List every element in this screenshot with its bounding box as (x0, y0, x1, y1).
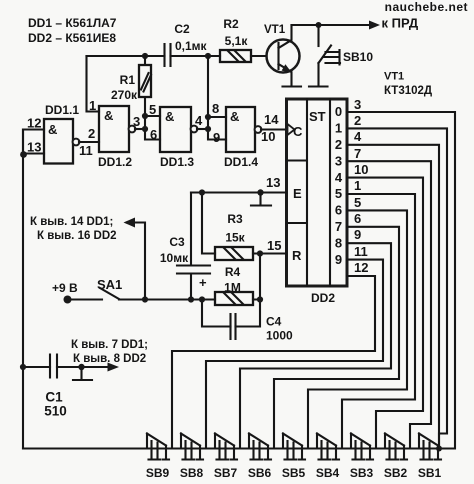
svg-text:SB9: SB9 (146, 466, 170, 480)
node at SB1 right (436, 446, 442, 452)
svg-text:ST: ST (309, 109, 326, 124)
svg-text:SB7: SB7 (214, 466, 238, 480)
svg-text:+: + (199, 275, 207, 290)
svg-text:11: 11 (79, 143, 93, 158)
node vertical at x=208 (C2 node / pins 8,9) (205, 56, 226, 145)
part list text DD1 DD2 (28, 16, 117, 45)
svg-text:8: 8 (335, 235, 342, 250)
resistor R4 (215, 265, 253, 305)
svg-text:2: 2 (354, 113, 361, 128)
svg-text:10: 10 (261, 129, 275, 144)
R input wire pin 15 (253, 238, 287, 257)
svg-text:SB3: SB3 (350, 466, 374, 480)
svg-text:13: 13 (27, 140, 41, 155)
switch SA1 (97, 277, 122, 299)
svg-text:SB4: SB4 (316, 466, 340, 480)
pushbutton SB4 (316, 434, 340, 481)
svg-text:C: C (293, 124, 303, 139)
svg-text:SB5: SB5 (282, 466, 306, 480)
svg-text:3: 3 (133, 114, 140, 129)
svg-text:12: 12 (27, 116, 41, 131)
pushbutton SB10 (309, 25, 373, 87)
svg-text:8: 8 (212, 101, 219, 116)
svg-text:C4: C4 (266, 315, 282, 329)
svg-text:VT1: VT1 (264, 24, 286, 36)
svg-text:15к: 15к (225, 231, 245, 245)
pushbutton SB1 (418, 434, 442, 481)
output wire pin 1 (out 5) (342, 178, 415, 449)
svg-text:0,1мк: 0,1мк (175, 39, 208, 53)
svg-text:К выв. 7 DD1;: К выв. 7 DD1; (71, 339, 148, 351)
resistor R3 (199, 189, 253, 260)
gate DD1.2 (89, 98, 145, 169)
capacitor C3 (160, 193, 210, 300)
svg-text:К выв. 8 DD2: К выв. 8 DD2 (73, 353, 146, 365)
svg-text:9: 9 (354, 227, 361, 242)
transistor type label (384, 71, 432, 98)
svg-text:270к: 270к (111, 88, 138, 102)
svg-text:0: 0 (335, 104, 342, 119)
output wire pin 4 (out 2) (347, 129, 439, 449)
output wire pin 7 (out 3) (347, 146, 431, 449)
svg-text:к ПРД: к ПРД (382, 16, 419, 31)
svg-text:VT1: VT1 (384, 71, 404, 83)
pushbutton SB3 (350, 434, 374, 481)
svg-text:&: & (104, 108, 113, 123)
svg-text:&: & (48, 122, 57, 137)
svg-text:1М: 1М (224, 281, 241, 295)
svg-text:5: 5 (335, 186, 342, 201)
left bus wire (22, 130, 24, 449)
svg-text:9: 9 (213, 130, 220, 145)
node on PRD line (316, 22, 322, 28)
wire R pin to C4 (259, 254, 261, 300)
output wire pin 2 (out 1) (347, 113, 447, 446)
node vertical at x=145 (R1 bottom / pins 5,6) (142, 102, 160, 142)
svg-text:&: & (165, 109, 174, 124)
output wire pin 12 (carry) (172, 260, 375, 449)
svg-text:DD1.1: DD1.1 (45, 103, 79, 117)
output wire pin 3 (out 0) (347, 97, 455, 449)
output wire pin 11 (out 9) (206, 244, 383, 449)
svg-text:10мк: 10мк (160, 251, 189, 265)
node dot at R1 top (142, 53, 148, 59)
svg-text:510: 510 (44, 404, 67, 419)
svg-text:1000: 1000 (266, 329, 293, 343)
capacitor C4 (202, 300, 293, 343)
svg-text:SB2: SB2 (384, 466, 408, 480)
output wire pin 5 (out 6) (308, 195, 407, 449)
svg-text:C2: C2 (174, 22, 190, 36)
svg-text:5: 5 (354, 195, 361, 210)
capacitor C1 (20, 355, 113, 419)
output wire pin 10 (out 4) (347, 162, 423, 449)
pushbutton SB9 (146, 434, 170, 481)
pushbutton SB6 (248, 434, 272, 481)
svg-text:11: 11 (354, 244, 368, 259)
pushbutton SB5 (282, 434, 306, 481)
svg-text:К выв. 16 DD2: К выв. 16 DD2 (37, 230, 117, 242)
pushbutton SB7 (214, 434, 238, 481)
svg-text:6: 6 (335, 203, 342, 218)
svg-text:3: 3 (354, 97, 361, 112)
svg-text:14: 14 (264, 112, 279, 127)
svg-text:SB6: SB6 (248, 466, 272, 480)
svg-text:7: 7 (335, 219, 342, 234)
svg-text:9: 9 (335, 252, 342, 267)
svg-text:DD1 – К561ЛА7: DD1 – К561ЛА7 (28, 16, 117, 30)
capacitor C2 (165, 22, 208, 66)
svg-text:6: 6 (354, 211, 361, 226)
svg-text:3: 3 (335, 153, 342, 168)
svg-text:К выв. 14 DD1;: К выв. 14 DD1; (30, 216, 113, 228)
pushbutton SB8 (180, 434, 204, 481)
transistor VT1 (264, 24, 300, 86)
svg-text:DD2 – К561ИЕ8: DD2 – К561ИЕ8 (28, 31, 116, 45)
svg-text:7: 7 (354, 146, 361, 161)
svg-text:SA1: SA1 (97, 277, 122, 292)
svg-text:1: 1 (354, 178, 361, 193)
IC DD2 (287, 99, 348, 305)
svg-text:R4: R4 (225, 265, 241, 279)
svg-text:SB8: SB8 (180, 466, 204, 480)
output wire pin 6 (out 7) (274, 211, 399, 449)
output wire pin 9 (out 8) (240, 227, 391, 449)
svg-text:2: 2 (335, 137, 342, 152)
svg-text:R3: R3 (227, 212, 243, 226)
svg-text:13: 13 (266, 175, 280, 190)
resistor R2 (220, 17, 251, 62)
svg-text:SB1: SB1 (418, 466, 442, 480)
wire: collector output line to PRD (292, 16, 419, 31)
svg-text:КТ3102Д: КТ3102Д (384, 85, 432, 97)
svg-text:R: R (292, 248, 302, 263)
arrow to power pins label (30, 216, 145, 300)
svg-text:10: 10 (354, 162, 368, 177)
power bus +9V (52, 281, 263, 304)
svg-text:C3: C3 (169, 235, 185, 249)
bottom common bus (23, 447, 453, 449)
svg-text:4: 4 (354, 129, 362, 144)
svg-text:1: 1 (89, 98, 96, 113)
svg-text:4: 4 (195, 113, 203, 128)
pushbutton SB2 (384, 434, 408, 481)
svg-text:5,1к: 5,1к (225, 34, 249, 48)
gate DD1.1 (23, 103, 99, 164)
svg-text:DD2: DD2 (311, 291, 335, 305)
svg-text:E: E (293, 186, 302, 201)
svg-text:nauchebe.net: nauchebe.net (385, 0, 468, 14)
svg-text:12: 12 (354, 260, 368, 275)
svg-text:DD1.4: DD1.4 (224, 155, 258, 169)
svg-text:R1: R1 (120, 73, 136, 87)
svg-text:5: 5 (149, 102, 156, 117)
svg-text:1: 1 (335, 121, 342, 136)
gate DD1.3 (160, 107, 208, 169)
DD2 output digits 0-9 (335, 104, 343, 267)
svg-text:R2: R2 (223, 17, 239, 31)
common symbol and arrow (to pins 7/8) (71, 339, 148, 380)
wire: top oscillator node y=56 (87, 56, 267, 112)
svg-text:6: 6 (150, 127, 157, 142)
resistor R1 (111, 56, 151, 116)
svg-text:15: 15 (267, 238, 281, 253)
svg-text:SB10: SB10 (343, 50, 373, 64)
svg-text:DD1.3: DD1.3 (160, 155, 194, 169)
gate DD1.4 (224, 107, 287, 169)
svg-text:&: & (230, 109, 239, 124)
E input wire pin 13 (191, 175, 287, 206)
emitter common bar (283, 85, 302, 87)
svg-text:C1: C1 (45, 390, 63, 405)
node dot at C2/R2 junction (205, 53, 211, 59)
svg-text:4: 4 (335, 170, 343, 185)
svg-text:+9 В: +9 В (52, 281, 78, 295)
svg-text:DD1.2: DD1.2 (98, 155, 132, 169)
svg-text:2: 2 (88, 126, 95, 141)
